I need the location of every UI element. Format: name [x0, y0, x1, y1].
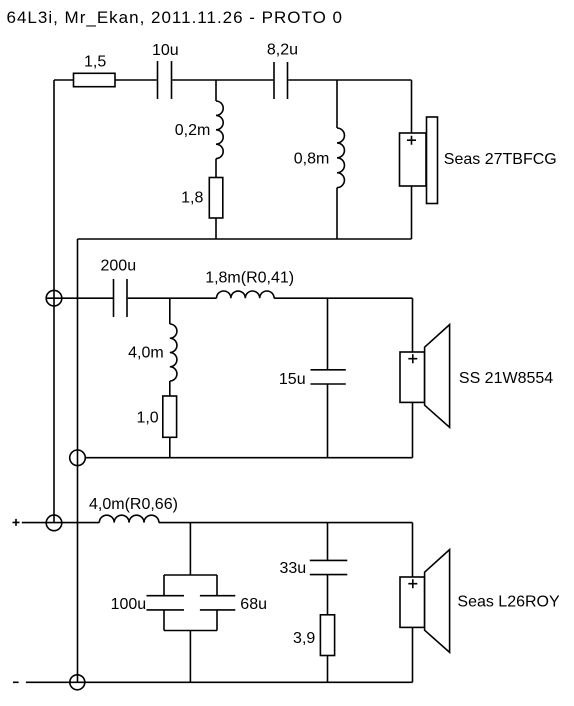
wire capacitor bank left leg upper	[163, 575, 165, 596]
node mid return junction	[70, 450, 86, 466]
wire mid rail segment 1	[47, 297, 114, 299]
midrange driver box	[400, 352, 425, 402]
tweeter driver box	[400, 133, 427, 186]
inductor 0,8m	[337, 128, 344, 188]
label Seas 27TBFCG	[444, 151, 557, 168]
node woofer input junction	[46, 515, 62, 531]
value label 3,9	[293, 630, 315, 647]
input plus terminal	[13, 519, 20, 526]
wire top rail segment 4	[288, 79, 411, 81]
wire mid section bottom rail	[85, 457, 412, 459]
wire capacitor bank left leg lower	[163, 610, 165, 631]
capacitor 200u	[114, 279, 128, 317]
midrange polarity plus	[408, 354, 417, 363]
wire capacitor bank top bar	[164, 574, 217, 576]
wire top rail down to tweeter	[411, 80, 413, 133]
svg-text:1,8: 1,8	[181, 190, 203, 207]
svg-text:Seas L26ROY: Seas L26ROY	[457, 593, 560, 610]
value label 1,8	[181, 190, 203, 207]
wire woofer rail segment 2	[159, 522, 413, 524]
wire capacitor bank to bottom rail	[189, 631, 191, 683]
value label 8,2u	[267, 41, 298, 58]
value label 4,0m	[128, 344, 164, 361]
svg-text:4,0m: 4,0m	[128, 344, 164, 361]
wire capacitor bank right leg upper	[216, 575, 218, 596]
capacitor 100u	[147, 596, 185, 610]
wire 0,8m to bottom rail	[336, 188, 338, 239]
wire midrange to mid bottom rail	[412, 402, 414, 457]
svg-text:64L3i, Mr_Ekan, 2011.11.26 - P: 64L3i, Mr_Ekan, 2011.11.26 - PROTO 0	[7, 8, 344, 27]
wire tweeter to bottom rail	[411, 186, 413, 239]
resistor 1,0	[163, 396, 177, 437]
wire junction drop to 4,0m	[169, 298, 171, 324]
capacitor 8,2u	[274, 62, 288, 99]
wire top rail left stub	[54, 79, 74, 81]
value label 10u	[152, 42, 179, 59]
value label 1,8m(R0,41)	[205, 269, 294, 286]
svg-text:33u: 33u	[279, 560, 306, 577]
value label 0,8m	[294, 150, 330, 167]
wire 3,9 to bottom rail	[327, 656, 329, 683]
woofer polarity plus	[408, 579, 417, 588]
label Seas L26ROY	[457, 593, 560, 610]
wire top rail segment 3	[172, 79, 273, 81]
value label 1,0	[136, 410, 158, 427]
wire 33u to 3,9	[327, 575, 329, 615]
woofer driver box	[400, 577, 425, 627]
svg-text:0,8m: 0,8m	[294, 150, 330, 167]
svg-text:SS 21W8554: SS 21W8554	[459, 370, 553, 387]
svg-text:10u: 10u	[152, 42, 179, 59]
node bottom return junction	[70, 675, 85, 690]
wire junction drop to 0,8m	[336, 80, 338, 128]
value label 15u	[279, 371, 306, 388]
input minus terminal	[13, 681, 19, 683]
svg-text:68u: 68u	[240, 596, 267, 613]
wire junction drop to 33u	[327, 523, 329, 561]
wire mid rail segment 3	[274, 297, 412, 299]
wire junction drop to 0,2m	[215, 80, 217, 101]
value label 4,0m(R0,66)	[89, 496, 178, 513]
svg-text:4,0m(R0,66): 4,0m(R0,66)	[89, 496, 178, 513]
value label 100u	[111, 596, 147, 613]
value label 200u	[101, 257, 137, 274]
wire junction drop to 15u	[327, 298, 329, 370]
value label 68u	[240, 596, 267, 613]
resistor 1,5	[74, 73, 116, 86]
svg-text:1,5: 1,5	[84, 54, 106, 71]
wire 0,2m to 1,8	[215, 159, 217, 178]
node mid input junction	[46, 290, 62, 306]
svg-text:3,9: 3,9	[293, 630, 315, 647]
wire left vertical return bus	[77, 239, 79, 682]
capacitor 33u	[310, 560, 348, 574]
wire capacitor bank bottom bar	[164, 630, 217, 632]
wire woofer rail down to woofer	[412, 523, 414, 577]
svg-text:1,0: 1,0	[136, 410, 158, 427]
label SS 21W8554	[459, 370, 553, 387]
svg-text:200u: 200u	[101, 257, 137, 274]
capacitor 68u	[200, 596, 235, 610]
woofer cone	[425, 550, 450, 653]
inductor 1,8m(R0,41)	[217, 291, 275, 298]
wire top rail segment 2	[115, 79, 157, 81]
svg-text:1,8m(R0,41): 1,8m(R0,41)	[205, 269, 294, 286]
inductor 4,0m	[170, 324, 177, 381]
svg-text:100u: 100u	[111, 596, 147, 613]
value label 1,5	[84, 54, 106, 71]
wire 1,0 to mid bottom rail	[169, 437, 171, 457]
resistor 1,8	[209, 178, 223, 219]
wire capacitor bank right leg lower	[216, 610, 218, 631]
wire mid rail down to midrange	[412, 298, 414, 352]
inductor 4,0m(R0,66)	[99, 515, 159, 522]
tweeter polarity plus	[407, 136, 416, 145]
wire 4,0m to 1,0	[169, 381, 171, 396]
wire woofer to bottom rail	[412, 627, 414, 682]
svg-text:0,2m: 0,2m	[175, 122, 211, 139]
wire 15u to mid bottom rail	[327, 384, 329, 458]
wire 1,8 to bottom rail	[215, 218, 217, 239]
svg-text:8,2u: 8,2u	[267, 41, 298, 58]
midrange cone	[425, 325, 450, 428]
value label 33u	[279, 560, 306, 577]
inductor 0,2m	[216, 101, 223, 159]
wire junction drop to capacitor bank	[189, 523, 191, 575]
wire woofer rail segment 1	[22, 522, 100, 524]
value label 0,2m	[175, 122, 211, 139]
resistor 3,9	[320, 615, 334, 656]
svg-text:15u: 15u	[279, 371, 306, 388]
tweeter faceplate	[427, 117, 438, 204]
wire left vertical from input plus to top rail	[53, 80, 55, 523]
wire bottom rail	[26, 681, 413, 683]
wire top section bottom rail	[78, 238, 412, 240]
wire mid rail segment 2	[128, 297, 217, 299]
capacitor 10u	[158, 61, 172, 99]
capacitor 15u	[311, 370, 346, 384]
svg-text:Seas 27TBFCG: Seas 27TBFCG	[444, 151, 557, 168]
title text	[7, 8, 344, 27]
